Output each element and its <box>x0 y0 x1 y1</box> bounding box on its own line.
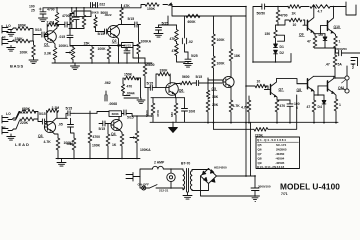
bridge diode d <box>212 179 215 182</box>
ground rail (channel 1) <box>52 62 152 64</box>
capacitor C27 .0044 <box>123 93 139 98</box>
ground (mix divider) <box>137 98 145 104</box>
wire divider to NFB <box>213 83 215 129</box>
resistor R15 330K mixer <box>156 72 170 87</box>
svg-text:2 AMP: 2 AMP <box>154 161 165 165</box>
svg-text:BASS: BASS <box>10 64 24 69</box>
wire Q2 emitter to rail <box>118 46 120 63</box>
resistor R43 220K NFB <box>254 128 268 132</box>
svg-text:5/15: 5/15 <box>127 116 134 120</box>
wire VR2 wiper to mixer riser <box>133 46 145 59</box>
svg-text:18: 18 <box>117 44 121 48</box>
bridge rectifier D3 <box>201 169 217 184</box>
transistor Q11 (power, no circle) <box>327 81 329 91</box>
wire to volume pot <box>70 46 73 48</box>
jack J4 HI <box>2 127 14 135</box>
svg-text:4.7: 4.7 <box>318 10 323 14</box>
svg-text:5A: 5A <box>338 63 343 67</box>
wire Q3 base riser <box>46 111 48 125</box>
svg-text:15K: 15K <box>84 42 91 46</box>
resistor R32 150 <box>274 30 278 44</box>
wire Q6 emitter <box>174 94 177 98</box>
capacitor C5 .022 (pair) <box>91 3 98 8</box>
resistor R6 4700 decoupler <box>70 8 74 29</box>
wire R31 to bias chain <box>276 25 279 30</box>
svg-text:150K: 150K <box>147 7 156 11</box>
capacitor C21 5/15 out <box>122 110 133 116</box>
svg-text:5600: 5600 <box>147 63 155 67</box>
svg-text:.0022: .0022 <box>104 13 112 17</box>
supply rail B (right of arrow) <box>172 5 246 7</box>
loop wire (R32 bypass) <box>278 35 285 41</box>
wire into tone box <box>69 18 71 26</box>
resistor R16 5600 <box>176 81 193 85</box>
wire diodes to bias line <box>275 54 277 62</box>
resistor R31 4700 <box>276 7 280 26</box>
svg-text:100K: 100K <box>20 51 29 55</box>
fuse 2 AMP <box>148 166 168 169</box>
resistor R11 100K <box>107 46 111 64</box>
NFB line <box>214 95 297 129</box>
capacitor C24 3000/50 output <box>336 48 360 56</box>
resistor R14 47K dropper <box>175 25 179 44</box>
svg-text:2N3565: 2N3565 <box>276 147 287 151</box>
resistor R14b 47K dropper <box>175 44 185 63</box>
wire Q1 emitter <box>53 42 55 47</box>
svg-text:100K: 100K <box>92 144 101 148</box>
svg-text:2.2M: 2.2M <box>52 106 60 110</box>
svg-text:-40360: -40360 <box>275 152 285 156</box>
resistor R27 18K collector <box>229 16 233 76</box>
long vertical B+ left <box>245 7 247 177</box>
wire mix divider <box>140 78 142 98</box>
node blob (150K out) <box>136 77 141 79</box>
svg-text:47K: 47K <box>170 37 177 41</box>
svg-text:.0044: .0044 <box>126 91 135 95</box>
speaker jack bracket <box>351 58 358 66</box>
main emitter bus <box>205 121 338 123</box>
svg-text:Q5: Q5 <box>212 87 217 91</box>
svg-text:HI: HI <box>2 36 5 40</box>
svg-text:212-21: 212-21 <box>159 189 169 193</box>
resistor R5 4700 collector load <box>55 8 59 25</box>
capacitor C28 .0068 <box>105 91 107 101</box>
capacitor C14 5/15 ch2 mix <box>150 85 165 90</box>
B+ vertical to PSU <box>250 122 252 176</box>
svg-text:220K: 220K <box>20 121 29 125</box>
master pot VR2 100KA (ch1) <box>137 25 141 64</box>
resistor R17 5600 emitter <box>151 98 155 122</box>
resistor R21 4.7K <box>56 138 60 159</box>
svg-text:5/15: 5/15 <box>66 106 73 110</box>
svg-text:7/71: 7/71 <box>281 192 288 196</box>
wire Q1 base riser <box>46 25 48 37</box>
resistor R24 100K <box>106 124 110 159</box>
wire secondary to bridge <box>192 169 209 191</box>
resistor R23 4700 <box>88 111 92 158</box>
svg-text:10: 10 <box>293 23 297 27</box>
jack J2 HI <box>2 38 14 46</box>
wire jack link <box>347 66 358 89</box>
node dots bus <box>207 6 337 124</box>
transistor Q1 <box>45 31 57 43</box>
svg-text:2.2M: 2.2M <box>47 20 55 24</box>
svg-text:47: 47 <box>307 40 311 44</box>
wire jacks to resistors <box>14 112 21 130</box>
wire Q7 collector to Q8 base <box>277 79 308 84</box>
wire Q3 emitter <box>52 132 58 138</box>
AC plug <box>126 173 140 182</box>
potentiometer VR1 100KL volume <box>71 48 75 64</box>
pot VR3 wiper arrow <box>67 143 71 145</box>
capacitor C20 5/15 base <box>99 121 111 126</box>
svg-text:15: 15 <box>125 47 129 51</box>
svg-text:100KB: 100KB <box>90 11 98 15</box>
potentiometer VR4 100KA (ch2) <box>135 131 139 159</box>
capacitor C18 5/15 interstage <box>66 111 74 119</box>
svg-text:Q8: Q8 <box>258 156 262 160</box>
capacitor C1 5/15 coupling <box>42 32 47 37</box>
svg-text:5/15: 5/15 <box>39 112 46 116</box>
svg-text:LO: LO <box>6 24 11 28</box>
svg-text:1K: 1K <box>112 143 117 147</box>
wire plug to switch <box>140 177 142 189</box>
svg-text:5/15: 5/15 <box>35 28 42 32</box>
capacitor C19 .05 <box>68 118 75 138</box>
resistor R29 20K bias <box>206 100 210 123</box>
resistor R12 150K on rail <box>145 3 159 7</box>
bridge diode b <box>210 170 213 173</box>
resistor R18 680K <box>20 110 36 114</box>
wire Q2 emitter <box>116 36 118 46</box>
pilot lamp <box>167 173 175 181</box>
svg-text:220K: 220K <box>15 37 24 41</box>
long vertical B+ right <box>252 7 254 62</box>
wire Q9 emitter to Q10 base <box>314 26 321 34</box>
ground (ch2 rail) <box>57 159 66 167</box>
wire Q4 emitter <box>119 130 122 134</box>
jack J1 LO <box>2 26 14 34</box>
wire Q4 collector to box <box>118 117 120 121</box>
svg-text:680: 680 <box>170 112 174 117</box>
diode D1 <box>274 44 278 48</box>
wire Q5 base tap <box>208 78 223 82</box>
svg-text:100K: 100K <box>98 47 107 51</box>
svg-text:680K: 680K <box>22 107 31 111</box>
svg-text:Q2: Q2 <box>112 39 117 43</box>
svg-text:18K: 18K <box>212 95 219 99</box>
transformer T1 core <box>187 169 189 193</box>
underlines for transistor labels <box>38 29 345 138</box>
svg-text:.47: .47 <box>325 63 330 67</box>
svg-text:470: 470 <box>127 84 133 88</box>
resistor R49 680 <box>174 98 178 122</box>
svg-text:100K: 100K <box>217 38 226 42</box>
svg-text:5/15: 5/15 <box>147 81 154 85</box>
capacitor C15 5/15 to driver <box>193 80 222 85</box>
node dots ch2 rail <box>57 115 152 159</box>
svg-text:18K: 18K <box>234 54 241 58</box>
resistor R39 1 <box>334 36 338 48</box>
wire plug to fuse <box>140 169 148 177</box>
svg-text:LEAD: LEAD <box>15 142 30 147</box>
resistor R45 5600 mixer (ch1 feed) <box>143 58 150 88</box>
resistor R20 2.2M <box>47 109 59 119</box>
resistor R38 47 emitter <box>313 34 317 48</box>
wire Q8 emitter down <box>314 86 318 100</box>
tone pot box 100KB <box>74 11 91 17</box>
resistor R25 100K upper <box>212 16 216 56</box>
transistor Q3 <box>44 121 55 132</box>
svg-text:330K: 330K <box>160 69 169 73</box>
wire bridge + output <box>217 175 256 177</box>
second-stage bias line <box>70 45 125 47</box>
svg-text:10: 10 <box>257 80 261 84</box>
resistor R42 1 (Q11 emitter) <box>334 99 338 123</box>
potentiometer VR3 100KL <box>72 138 76 159</box>
svg-text:3000/50: 3000/50 <box>336 47 347 51</box>
bias line y62 <box>253 54 291 63</box>
svg-text:5/15: 5/15 <box>128 17 135 21</box>
node dots output <box>277 6 336 96</box>
polarity plus (C2) <box>39 8 41 10</box>
ground (ch1 rail) <box>71 63 80 70</box>
svg-text:.022: .022 <box>99 2 106 6</box>
resistor R19 220K <box>20 117 34 121</box>
svg-text:D4: D4 <box>318 105 322 109</box>
svg-text:100KL: 100KL <box>64 141 74 145</box>
svg-text:Q11: Q11 <box>338 86 344 90</box>
resistor R28 18K bias <box>207 78 210 99</box>
switch blade <box>146 185 183 188</box>
pot VR1 wiper arrow <box>66 52 70 54</box>
node A (input junction) <box>30 29 41 42</box>
wire jack LO to R1 <box>14 27 17 29</box>
ground (C2) <box>39 18 48 22</box>
wire output node to jack <box>335 77 345 79</box>
svg-text:HI: HI <box>2 126 5 130</box>
resistor R48 470 <box>121 78 124 96</box>
resistor R8 box leg <box>94 15 97 32</box>
svg-text:.05: .05 <box>58 122 63 126</box>
svg-text:3000/100: 3000/100 <box>258 185 271 189</box>
parts list box <box>256 137 300 169</box>
capacitor C26 tone leg <box>74 8 80 29</box>
svg-text:LO: LO <box>6 112 11 116</box>
capacitor C3 .015 <box>67 25 73 47</box>
capacitor C4 5/15 interstage <box>57 22 70 27</box>
node dots psu <box>170 168 256 197</box>
svg-text:50/50: 50/50 <box>257 12 266 16</box>
resistor R47 150K mix <box>124 76 136 80</box>
wire D5 top <box>321 33 336 36</box>
svg-text:Q9: Q9 <box>299 33 304 37</box>
capacitor C11 5/25 + ground <box>154 25 163 37</box>
svg-text:.015: .015 <box>59 35 66 39</box>
wire Q8 collector to output node <box>314 76 336 78</box>
resistor R13 600K <box>186 14 200 18</box>
capacitor C12 .02 <box>182 16 188 52</box>
svg-text:5600: 5600 <box>145 110 149 117</box>
resistor R2 220K <box>16 39 30 43</box>
svg-text:D5: D5 <box>319 33 323 37</box>
node B+ arrow <box>168 2 173 5</box>
svg-text:D2: D2 <box>280 51 284 55</box>
resistor R44 4.7K <box>247 96 251 123</box>
transistor Q5 <box>223 76 234 87</box>
Q6 emitter bus <box>151 97 185 99</box>
svg-text:150: 150 <box>265 32 271 36</box>
node dots ch1 rail <box>56 7 128 64</box>
svg-text:Q1: Q1 <box>44 43 49 47</box>
svg-text:100KL: 100KL <box>59 44 69 48</box>
svg-text:470K: 470K <box>156 109 160 117</box>
capacitor C17 5/15 <box>42 119 47 124</box>
resistor R4 2.2M feedback <box>47 23 59 27</box>
svg-text:Q8: Q8 <box>297 88 302 92</box>
wire Q5 emitter <box>230 88 232 100</box>
svg-text:4700: 4700 <box>47 8 55 12</box>
wire Q3 collector <box>52 118 67 122</box>
svg-text:Q7: Q7 <box>279 87 284 91</box>
wire D4 top <box>318 94 324 96</box>
svg-text:5/15: 5/15 <box>196 75 203 79</box>
capacitor C25 3000/100 <box>251 176 259 196</box>
svg-text:5/15: 5/15 <box>98 32 105 36</box>
resistor R30 4.7K <box>229 100 233 123</box>
emitter return bus (left part) <box>150 121 205 123</box>
pot VR4 wiper arrow <box>130 137 134 139</box>
svg-text:47: 47 <box>307 105 311 109</box>
resistor R36 10 <box>278 18 305 25</box>
jack J3 LO <box>2 116 14 124</box>
ground (ch2 jacks) <box>7 134 15 140</box>
transistor Q10 (power, no circle) <box>327 21 329 31</box>
jack contact arrows <box>342 80 346 91</box>
resistor R22 1K <box>120 134 124 159</box>
wire to VR4 and mix bus <box>132 116 152 131</box>
wire pot top to bias line <box>72 46 74 48</box>
svg-text:1K: 1K <box>292 12 297 16</box>
resistor R9 47K <box>120 5 124 25</box>
capacitor C10 50/15 bypass <box>122 43 134 48</box>
svg-text:10/6: 10/6 <box>189 110 196 114</box>
svg-text:Q10: Q10 <box>334 25 341 29</box>
bridge diode a <box>202 171 205 174</box>
ground (jack LO) <box>7 30 15 36</box>
wire wiper down <box>65 52 67 54</box>
svg-text:5/25: 5/25 <box>162 22 169 26</box>
transistor Q2 <box>108 26 120 38</box>
svg-text:Q10-Q11-2N4348: Q10-Q11-2N4348 <box>257 165 285 169</box>
resistor R37 4.7 <box>310 5 346 9</box>
resistor R35 1K <box>288 5 309 9</box>
svg-text:BT-70: BT-70 <box>181 162 190 166</box>
pot VR2 wiper arrow <box>133 45 138 47</box>
resistor R41 47 <box>312 100 316 123</box>
tone line <box>69 28 84 30</box>
wire fuse to transformer <box>168 168 183 170</box>
resistor R26 100K lower <box>212 56 216 83</box>
svg-text:4700: 4700 <box>62 14 70 18</box>
svg-text:D1: D1 <box>280 45 284 49</box>
transistor Q9 (power, no circle) <box>307 20 309 30</box>
resistor R33 10 (Q7 base) <box>246 84 268 89</box>
svg-text:220K: 220K <box>255 133 264 137</box>
svg-text:5600: 5600 <box>182 75 190 79</box>
resistor R10 15K <box>90 46 94 64</box>
wire C11 tap node <box>159 16 177 25</box>
svg-text:HD24200: HD24200 <box>214 165 227 169</box>
speaker jack terminal 2 <box>345 89 349 93</box>
resistor R34 470 <box>275 100 279 123</box>
wire ch2 riser <box>147 88 149 116</box>
svg-text:.0068: .0068 <box>109 102 118 106</box>
capacitor C22 100/6 <box>287 100 293 123</box>
svg-text:25: 25 <box>31 9 35 13</box>
resistor R40 .47 speaker <box>333 48 337 78</box>
wire Q7 emitter <box>277 97 290 100</box>
speaker jack terminal 1 <box>345 76 349 80</box>
emitter bus y48 <box>315 47 336 49</box>
supply rail (channel 1) <box>43 5 168 8</box>
svg-text:680K: 680K <box>18 24 27 28</box>
svg-text:680K: 680K <box>112 112 120 116</box>
diode D4 <box>322 95 326 123</box>
svg-text:.02: .02 <box>188 40 193 44</box>
wire bridge - return <box>201 176 256 196</box>
svg-text:Q7: Q7 <box>258 152 262 156</box>
resistor R1 680K <box>16 27 30 31</box>
switch ON-OFF <box>142 186 146 190</box>
capacitor C8 5/15 Q2 base <box>96 29 108 34</box>
wire box feed <box>97 112 109 114</box>
diode D2 <box>274 50 278 54</box>
svg-text:5Ah: 5Ah <box>351 63 355 69</box>
svg-text:.062: .062 <box>104 81 111 85</box>
wire R18 left <box>14 112 21 121</box>
svg-text:150K: 150K <box>124 72 133 76</box>
ground (R3) <box>29 60 38 64</box>
svg-text:Q3: Q3 <box>38 134 43 138</box>
resistor R3 100K to ground <box>32 41 36 60</box>
svg-text:1: 1 <box>339 103 341 107</box>
svg-text:5/15: 5/15 <box>99 127 106 131</box>
capacitor C13 5/25 + ground <box>184 52 193 67</box>
bridge diode c <box>204 177 207 180</box>
capacitor C16 10/6 bypass <box>182 98 188 122</box>
node (ch2 junction) <box>34 112 42 122</box>
wire box input <box>70 14 74 18</box>
svg-text:Q5: Q5 <box>258 143 262 147</box>
svg-text:20K: 20K <box>212 103 219 107</box>
B line (16V sub-rail) <box>172 5 246 17</box>
svg-text:MODEL U-4100: MODEL U-4100 <box>280 182 340 192</box>
svg-text:4700: 4700 <box>93 135 101 139</box>
svg-text:Q6: Q6 <box>258 147 262 151</box>
ground rail (channel 2) <box>56 158 140 160</box>
transistor Q6 <box>166 83 179 96</box>
ground (C25) <box>251 196 260 201</box>
wire C18 to Q4 box <box>74 112 97 114</box>
wire Q11 emitter down <box>335 94 337 99</box>
speaker jack (top, U shape) <box>346 2 356 15</box>
wire Q1 collector <box>53 25 57 32</box>
svg-text:47K: 47K <box>124 4 131 8</box>
svg-text:5/25: 5/25 <box>191 54 198 58</box>
tone box 680K (ch2) <box>109 111 122 117</box>
transistor Q7 (no circle) <box>270 84 272 94</box>
